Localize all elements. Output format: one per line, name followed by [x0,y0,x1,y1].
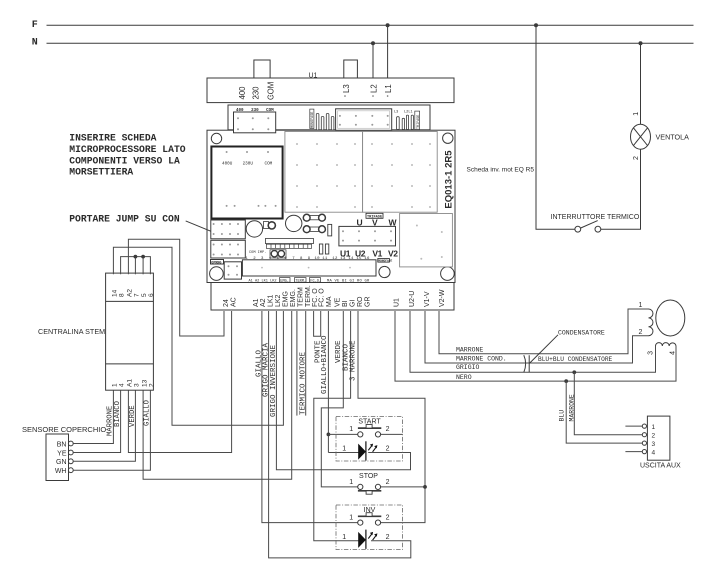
trimmer 10 [319,244,322,254]
svg-text:2: 2 [149,383,156,387]
svg-text:A2: A2 [127,289,134,297]
svg-text:TERM.: TERM. [295,279,306,283]
svg-text:V1: V1 [372,248,382,258]
svg-text:BLU+BLU CONDENSATORE: BLU+BLU CONDENSATORE [538,356,613,363]
wire PONTE jumper FC.O [314,311,321,336]
relay region left [285,132,363,213]
wire VERDE pin3-GN [73,390,135,461]
svg-text:7: 7 [134,293,141,297]
relay region right [363,132,438,213]
right pale rect [400,214,453,267]
transformer T1 [211,147,282,219]
svg-text:8: 8 [119,293,126,297]
wire aux pin4 stub [625,451,642,453]
svg-text:GRIGO INVERSIONE: GRIGO INVERSIONE [270,344,278,417]
junction pin5 bus [141,255,145,259]
block with 4 pins [224,262,241,279]
svg-text:EMG.: EMG. [280,279,289,283]
terminal dots [241,95,388,97]
svg-text:MORSETTIERA: MORSETTIERA [69,167,133,178]
connector USCITA AUX [647,416,670,460]
svg-text:EMG: EMG [283,291,290,307]
svg-text:1: 1 [652,424,656,431]
wire pin13 to EMG. [143,311,292,479]
label TRIFASE black box [366,213,383,218]
wire U2-U GRIGIO [410,311,656,372]
svg-text:SENSORE COPERCHIO: SENSORE COPERCHIO [22,425,106,434]
resistor vertical [328,224,332,236]
svg-text:VENTOLA: VENTOLA [656,132,690,141]
svg-text:COM: COM [265,162,273,167]
svg-text:1: 1 [349,479,353,486]
tiny terminal labels row [249,278,370,284]
pointer condensatore [529,335,558,364]
connector bars right [397,115,414,129]
svg-text:MONOFASE: MONOFASE [311,112,315,128]
wire TERM 2 [305,311,307,416]
svg-text:A2: A2 [260,298,267,307]
wire BI jog to STOP [321,311,357,487]
wire BIANCO pin4-YE [73,390,120,452]
svg-text:1: 1 [349,426,353,433]
connector tab right [344,60,358,78]
svg-text:L3: L3 [394,110,398,114]
centralina box [106,273,154,390]
svg-text:COM: COM [267,82,276,100]
svg-text:Scheda inv. mot EQ R5: Scheda inv. mot EQ R5 [467,167,535,174]
svg-text:230: 230 [252,86,261,100]
svg-text:VERDE: VERDE [129,405,137,427]
svg-text:CONDENSATORE: CONDENSATORE [558,330,605,337]
svg-text:GIALLO+BIANCO: GIALLO+BIANCO [321,335,329,394]
pin circle aux1 [642,424,646,428]
svg-text:4: 4 [652,450,656,457]
wire GIALLO A2 to INV [262,311,358,523]
svg-text:BLU: BLU [559,410,566,422]
svg-text:MA: MA [326,296,333,307]
svg-text:2: 2 [386,426,390,433]
pointer line jump [186,221,211,231]
svg-text:LK2: LK2 [275,294,282,307]
pin circle WH [68,468,73,473]
svg-text:COM IMP.: COM IMP. [249,251,266,255]
bottom terminal strip X2 [211,283,454,311]
svg-text:1: 1 [112,383,119,387]
label MONOFASE vertical box [310,109,314,128]
connector bars left [316,114,334,131]
PCB top connector strip [228,105,430,130]
svg-text:2: 2 [386,479,390,486]
LED START [358,441,377,460]
svg-text:4: 4 [119,383,126,387]
jumper block CN2 [211,240,246,258]
lamp/fan M1 VENTOLA [631,124,651,149]
svg-text:400 230 COM: 400 230 COM [236,109,274,113]
trimmer 11 [325,244,328,254]
wire pin14 to EMG [113,247,283,425]
junction GRIGIO-MARRONE aux [572,370,576,374]
cable cross squiggle [524,355,529,372]
svg-text:1: 1 [633,112,640,116]
svg-text:OPRNG: OPRNG [211,261,221,265]
svg-text:6: 6 [148,293,155,297]
svg-text:BN: BN [57,441,67,448]
wire GRIGIO MARCIA LK1 to INV LED return [269,311,411,558]
svg-text:GRIGIO: GRIGIO [456,364,480,371]
wire MARRONE pin1-BN [73,390,113,443]
component small rect + ring [264,222,269,229]
svg-text:1: 1 [349,514,353,521]
wire MARRONE to aux pin2 [574,372,642,434]
svg-text:2: 2 [652,433,656,440]
svg-text:TERM: TERM [298,287,305,307]
wire GIALLO pin2-WH [73,390,150,470]
svg-text:GN: GN [56,459,67,466]
svg-text:U1: U1 [309,73,318,80]
wire pin A2c to 24 [128,239,224,336]
wire V1-V MARRONE COND [425,311,649,363]
svg-text:BIANCO: BIANCO [114,401,122,427]
svg-text:EMG.: EMG. [290,289,297,307]
svg-text:U2-U: U2-U [409,291,416,307]
svg-text:400U: 400U [222,162,233,167]
header J1 pins [266,244,311,248]
wire aux pin1 stub [625,425,642,427]
junction L2-N [371,41,375,45]
jumper block CN1 [211,220,246,239]
svg-text:LK1: LK1 [268,294,275,307]
wire GI jog to INV LED [314,311,359,541]
svg-text:4: 4 [670,351,677,355]
svg-text:2: 2 [386,514,390,521]
svg-text:L2: L2 [370,84,379,93]
svg-text:V1-V: V1-V [424,291,431,307]
svg-text:FC. O: FC. O [319,288,326,307]
svg-text:MONOFASE: MONOFASE [378,260,392,263]
switch START NO [358,425,382,438]
pin circle aux4 [642,450,646,454]
junction NERO-BLU aux [564,379,568,383]
wire N line [47,42,694,44]
wire BLU to aux pin3 [566,381,642,443]
svg-text:FC.O.: FC.O. [310,279,321,283]
svg-text:VE: VE [335,297,342,307]
svg-text:WH: WH [55,468,67,475]
svg-text:NERO: NERO [456,374,472,381]
svg-text:A1: A1 [253,298,260,307]
svg-text:INTERRUTTORE TERMICO: INTERRUTTORE TERMICO [551,214,640,221]
svg-text:MICROPROCESSORE LATO: MICROPROCESSORE LATO [69,144,185,155]
wire V2-W MARRONE [439,309,649,354]
junction L1-F [386,23,390,27]
svg-text:USCITA AUX: USCITA AUX [640,463,681,470]
svg-text:3 MARRONE: 3 MARRONE [350,340,358,381]
svg-text:3: 3 [652,441,656,448]
svg-text:A1 A2 LK1 LK2: A1 A2 LK1 LK2 [249,279,277,283]
svg-text:14: 14 [112,289,119,297]
svg-text:TERMICO MOTORE: TERMICO MOTORE [300,351,308,415]
svg-text:U2: U2 [355,248,366,258]
pin circle YE [68,450,73,455]
svg-text:CENTRALINA STEM: CENTRALINA STEM [38,327,105,336]
svg-text:1: 1 [342,446,346,453]
svg-text:A1: A1 [127,379,134,387]
svg-text:U1: U1 [340,248,351,258]
svg-text:2: 2 [386,446,390,453]
mounting hole BR [441,267,455,281]
label TRIFASE vertical box [415,111,420,129]
junction MA START [327,433,331,437]
long bottom connector [242,260,376,276]
pushbutton INV box [336,505,403,550]
wire F line [47,24,694,26]
wire START LED feed [328,452,358,454]
mounting hole TR [443,133,453,143]
svg-text:U1: U1 [394,298,401,307]
svg-text:RO: RO [357,296,364,307]
junction N drop [639,41,643,45]
svg-text:EQ013-1 2R5: EQ013-1 2R5 [444,150,455,209]
relay block 400/230/COM top [234,112,276,133]
switch S1 thermal [575,221,601,233]
svg-text:N: N [32,38,38,49]
svg-text:MARRONE: MARRONE [456,346,483,353]
pin circle GN [68,459,73,464]
svg-text:24: 24 [223,299,230,307]
svg-text:STOP: STOP [359,473,378,480]
pushbutton START box [336,417,403,462]
wire F to thermal switch [536,25,575,229]
bottom middle circle [379,266,390,277]
svg-text:MARRONE COND.: MARRONE COND. [456,355,507,362]
connector tab left [254,60,270,78]
svg-text:V2: V2 [388,248,398,258]
svg-text:GIALLO: GIALLO [144,400,152,426]
svg-text:400: 400 [238,86,247,100]
svg-text:L3: L3 [342,84,351,93]
wire pin 5 stub [142,257,144,275]
svg-text:230U: 230U [243,162,254,167]
svg-text:V2-W: V2-W [439,289,446,307]
wire START feed [328,433,357,435]
wire pin 7 stub [134,257,136,275]
svg-text:3: 3 [648,351,655,355]
capacitor C2 [286,215,302,231]
header J1 [266,238,314,243]
jumper pair row1 [310,215,321,219]
svg-text:PORTARE JUMP SU CON: PORTARE JUMP SU CON [69,213,180,224]
svg-text:3: 3 [134,383,141,387]
svg-text:2: 2 [639,329,643,336]
junction pin7 bus [134,255,138,259]
wire TERM 1 [296,311,298,416]
svg-text:YE: YE [57,450,67,457]
mounting hole TL [211,133,221,143]
terminal strip X1 outer [207,78,454,103]
wire fan to thermal switch [601,149,641,229]
svg-text:GI: GI [350,300,357,307]
svg-text:TERM.: TERM. [305,285,312,307]
wire N to fan [640,43,642,124]
label OPRNG box [211,260,224,265]
wire MA to START [327,311,329,453]
LED INV [358,530,377,549]
motor relay connector [339,226,396,246]
svg-text:MARRONE: MARRONE [569,394,576,421]
wire L2 to N [372,43,374,78]
svg-text:GR: GR [364,297,371,308]
svg-text:MA VE BI GI RO GR: MA VE BI GI RO GR [327,279,370,283]
svg-text:L2L1: L2L1 [404,110,413,114]
sensor box SENSORE COPERCHIO [46,434,69,481]
wire U1 NERO [395,311,676,381]
svg-text:INSERIRE SCHEDA: INSERIRE SCHEDA [69,133,156,144]
pin circle aux3 [642,441,646,445]
wide connector [336,109,392,131]
svg-text:2: 2 [386,534,390,541]
svg-text:1: 1 [639,302,643,309]
pin circle BN [68,441,73,446]
svg-text:L1: L1 [384,84,393,93]
wire START sw right stub [381,433,403,435]
capacitor C1 [246,221,262,237]
svg-text:13: 13 [141,379,148,387]
inductor coil 1-2 [649,309,653,336]
jumper with 2 rings [270,250,286,258]
svg-text:2: 2 [633,156,640,160]
note INSERIRE SCHEDA [69,133,185,178]
PCB board outline [207,130,455,282]
junction F drop [534,23,538,27]
svg-text:BI: BI [342,300,349,307]
svg-text:TRIFASE: TRIFASE [417,115,421,129]
svg-text:1: 1 [342,534,346,541]
switch INV NO [358,513,382,526]
wire STOP right [381,486,425,488]
svg-text:F: F [32,20,38,31]
wire RO jog to STOP-INV chain [358,311,425,523]
svg-text:COMPONENTI VERSO LA: COMPONENTI VERSO LA [69,155,180,166]
wire GRIGIO INVERSIONE LK2 to START LED return [276,311,410,470]
PCB internals group [210,109,453,284]
motor body M [656,300,685,336]
bottom circle left [210,267,224,281]
svg-text:AC: AC [231,297,238,307]
pin circle aux2 [642,433,646,437]
wire bus 8-7-5-6 [121,257,151,275]
wire AC to pinA1c [128,311,231,453]
switch STOP NC [358,484,382,494]
jumper pair row2 [310,227,321,231]
label MONOFASE black box [378,259,390,263]
inductor coil 3-4 [656,343,677,346]
wire L1 to F [387,25,389,78]
junction STOP chain [423,485,427,489]
svg-text:5: 5 [141,293,148,297]
